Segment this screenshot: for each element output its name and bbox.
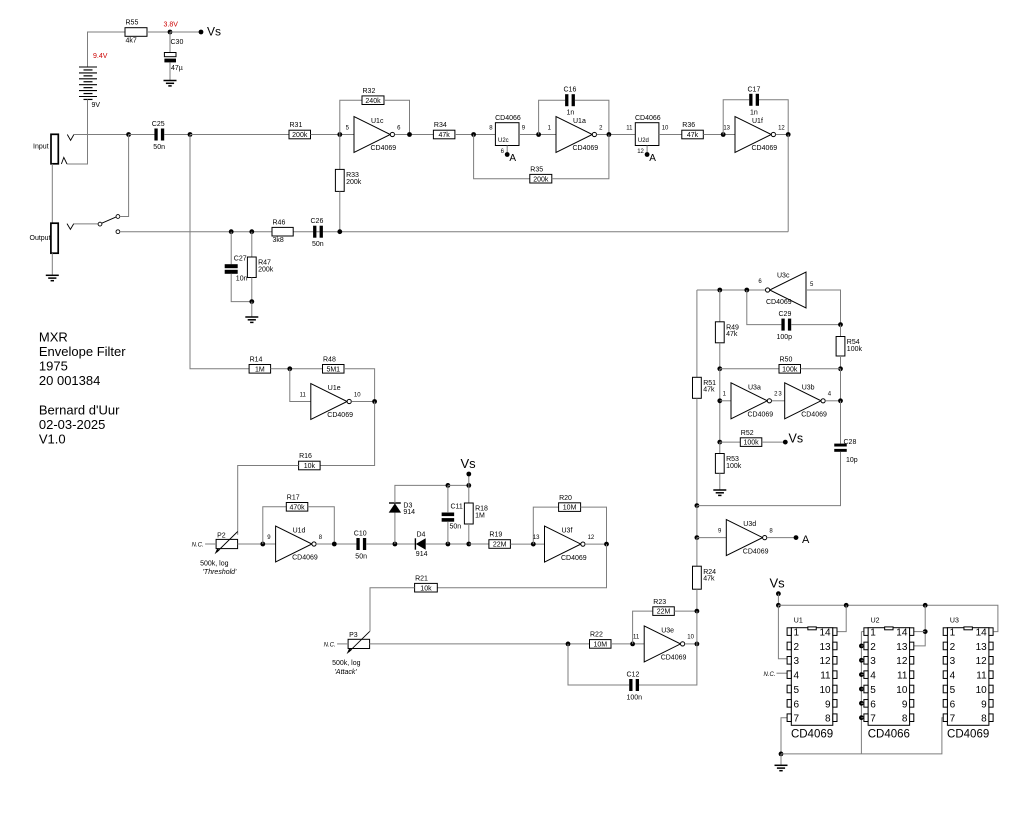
svg-text:9: 9 [902, 699, 908, 710]
svg-text:CD4066: CD4066 [868, 728, 910, 740]
inverter U1e [300, 384, 362, 420]
ground below rail [775, 765, 788, 770]
svg-text:12: 12 [778, 125, 785, 131]
node U2 pin2 junction [859, 644, 864, 649]
svg-text:22M: 22M [657, 609, 671, 616]
wire U2 pin7 stub [861, 717, 864, 719]
svg-text:A: A [649, 153, 656, 164]
node U1f input [721, 132, 726, 137]
node U2 pin14 tee [923, 629, 928, 634]
resistor R22 [590, 632, 612, 649]
wire D3 to Vs row [395, 485, 448, 503]
svg-text:R32: R32 [363, 88, 376, 95]
wire to ground [251, 302, 253, 317]
svg-text:7: 7 [794, 714, 800, 725]
svg-text:100k: 100k [782, 366, 798, 373]
svg-text:U3d: U3d [743, 521, 756, 528]
potentiometer P3 [324, 631, 370, 676]
diode D4 [415, 531, 427, 558]
svg-text:1M: 1M [475, 512, 485, 519]
wire up to Vs terminal [468, 476, 470, 486]
svg-text:11: 11 [897, 671, 908, 682]
svg-text:10n: 10n [236, 275, 248, 282]
resistor R19 [489, 532, 511, 549]
capacitor C11 [442, 504, 463, 531]
svg-text:R52: R52 [741, 430, 754, 437]
wire U2 pin3 stub [861, 659, 864, 661]
resistor R36 [682, 122, 704, 139]
svg-text:R14: R14 [250, 357, 263, 364]
wire R54 to R50 row [840, 356, 842, 369]
svg-text:6: 6 [794, 699, 800, 710]
svg-text:4: 4 [950, 671, 956, 682]
wire R48 to U1e output [344, 369, 375, 402]
svg-text:A: A [802, 534, 810, 546]
wire to R18 top [448, 484, 469, 486]
resistor R46 [272, 219, 293, 244]
battery BT1 9V [79, 53, 108, 109]
node C11 top [446, 483, 451, 488]
svg-text:9.4V: 9.4V [93, 53, 108, 60]
wire U3c input from right [806, 290, 841, 325]
node 3.8V junction [168, 30, 173, 35]
wire output sleeve to ground [51, 253, 53, 275]
svg-text:U3e: U3e [661, 627, 674, 634]
svg-text:10k: 10k [420, 585, 432, 592]
svg-text:8: 8 [981, 714, 987, 725]
wire jack sleeve link [51, 164, 53, 223]
svg-text:100p: 100p [777, 334, 793, 341]
node U2 pin4 junction [859, 672, 864, 677]
jack J1 Input [33, 134, 58, 164]
svg-text:10M: 10M [593, 642, 607, 649]
resistor R21 [415, 575, 438, 592]
svg-text:1975: 1975 [39, 358, 68, 373]
wire C11 vertical top [447, 485, 449, 512]
svg-text:14: 14 [819, 628, 831, 639]
resistor R23 [653, 599, 675, 616]
svg-text:U1: U1 [794, 618, 803, 625]
svg-text:3: 3 [950, 656, 956, 667]
node U3d input [695, 535, 700, 540]
wire down to C27 [230, 232, 232, 265]
svg-text:Vs: Vs [207, 25, 221, 39]
wire C28 return [697, 452, 841, 506]
resistor R17 [286, 495, 308, 512]
svg-text:C27: C27 [234, 255, 247, 262]
inverter U1d [267, 526, 322, 562]
wire switch upper throw to input node [120, 135, 129, 217]
wire R34 to U2c [455, 134, 496, 136]
inverter U1c [346, 117, 401, 153]
input jack ring contact [61, 157, 67, 164]
wire bus R51 to C28 row [696, 398, 698, 505]
wire oscillator bus upper [696, 290, 698, 377]
wire U3a to U3b [772, 400, 785, 402]
svg-text:CD4069: CD4069 [791, 728, 833, 740]
resistor R52 [740, 430, 762, 447]
svg-text:6: 6 [870, 699, 876, 710]
wire bus to U3d input [696, 506, 698, 538]
node ground rail [779, 752, 784, 757]
svg-text:14: 14 [976, 628, 988, 639]
svg-text:240k: 240k [365, 98, 381, 105]
svg-text:9: 9 [981, 699, 987, 710]
svg-text:10: 10 [687, 635, 694, 641]
node U1e output [372, 399, 377, 404]
wire R53 to ground [719, 473, 721, 489]
wire battery- to input jack ring [67, 100, 88, 165]
svg-text:12: 12 [637, 149, 644, 155]
svg-text:11: 11 [820, 671, 831, 682]
node U3f output [604, 542, 609, 547]
svg-text:U1a: U1a [573, 118, 586, 125]
svg-text:47k: 47k [703, 387, 715, 394]
svg-text:12: 12 [588, 535, 595, 541]
svg-text:U2c: U2c [498, 138, 509, 144]
inverter U3a [723, 383, 778, 419]
wire U2d to R36 [659, 134, 682, 136]
svg-text:5: 5 [870, 685, 876, 696]
node U1a output [607, 132, 612, 137]
wire R35 feedback right [552, 135, 609, 179]
wire C16 feedback right [575, 100, 609, 134]
wire Vs rail [778, 605, 998, 631]
IC U1 CD4069 [787, 618, 837, 741]
wire to Vs terminal [170, 31, 201, 33]
wire ground stub [780, 754, 782, 765]
resistor R47 [247, 257, 273, 278]
wire C12 branch [568, 644, 629, 685]
wire R18 vertical bottom [468, 524, 470, 544]
capacitor C17 [748, 86, 761, 116]
wire C11 vertical bottom [447, 522, 449, 544]
wire R49 vertical [719, 290, 721, 322]
wire right bus to C28 [840, 401, 842, 444]
wire U3b output [825, 400, 840, 402]
svg-text:11: 11 [976, 671, 987, 682]
wire R19 to U3f [510, 543, 544, 545]
IC U3 CD4069 [943, 618, 993, 741]
capacitor C30 [164, 39, 183, 72]
wire U1e output [351, 401, 374, 403]
resistor R34 [433, 122, 455, 139]
svg-text:Input: Input [33, 143, 49, 150]
svg-text:100n: 100n [627, 695, 643, 702]
svg-text:13: 13 [896, 642, 908, 653]
svg-text:P2: P2 [217, 532, 226, 539]
node C28 return junction [695, 503, 700, 508]
node ground junction [249, 299, 254, 304]
node R18 top [466, 483, 471, 488]
svg-text:R19: R19 [489, 532, 502, 539]
wire rail to U2 pin14/13 [914, 605, 925, 646]
switch lever [102, 217, 116, 223]
resistor R14 [249, 357, 271, 374]
svg-text:4: 4 [870, 671, 876, 682]
svg-text:200k: 200k [533, 176, 549, 183]
node R52 tap [717, 440, 722, 445]
svg-text:U1e: U1e [328, 385, 341, 392]
wire U1e input [290, 369, 311, 402]
svg-text:2: 2 [794, 642, 800, 653]
capacitor C10 [354, 531, 367, 561]
resistor R24 [693, 566, 717, 589]
wire R23 feedback right [674, 610, 697, 612]
wire R14 to node [271, 368, 323, 370]
svg-text:10k: 10k [304, 463, 316, 470]
svg-text:U1c: U1c [371, 118, 384, 125]
svg-text:50n: 50n [312, 241, 324, 248]
svg-text:11: 11 [626, 125, 633, 131]
net Vs terminal DIP [776, 591, 781, 596]
svg-text:9V: 9V [92, 102, 101, 109]
svg-text:100k: 100k [847, 346, 863, 353]
svg-text:U3f: U3f [562, 528, 573, 535]
wire R24 to R23 node [696, 589, 698, 611]
svg-text:7: 7 [950, 714, 956, 725]
svg-text:C17: C17 [748, 86, 761, 93]
node U1c output [407, 132, 412, 137]
svg-text:N.C.: N.C. [192, 543, 204, 549]
wire R17 feedback right [308, 507, 335, 544]
svg-text:R55: R55 [126, 20, 139, 27]
svg-text:R17: R17 [287, 495, 300, 502]
inverter U3e [633, 626, 695, 662]
svg-text:R34: R34 [434, 122, 447, 129]
wire C16 feedback left [539, 100, 566, 134]
svg-text:CD4069: CD4069 [292, 555, 318, 562]
svg-text:CD4066: CD4066 [635, 115, 661, 122]
svg-text:11: 11 [300, 392, 307, 398]
svg-text:N.C.: N.C. [324, 642, 336, 648]
wire R20 feedback left [533, 507, 558, 544]
svg-text:CD4066: CD4066 [495, 115, 521, 122]
wire U3a input stub [720, 400, 731, 402]
svg-text:U2: U2 [871, 618, 880, 625]
wire U3d input [697, 537, 726, 539]
wire R33 to feedback line [339, 191, 341, 231]
svg-text:R21: R21 [415, 575, 428, 582]
text block title [39, 329, 126, 446]
capacitor C27 [225, 255, 248, 282]
switch SW1 pole [98, 222, 102, 226]
resistor R18 [464, 503, 488, 524]
wire U3f output [585, 543, 606, 545]
svg-text:CD4069: CD4069 [947, 728, 989, 740]
svg-text:Vs: Vs [789, 432, 804, 446]
wire Vs to rail [777, 594, 779, 606]
node R50 left [717, 366, 722, 371]
net Vs terminal R52 [783, 440, 788, 445]
node R49 tap [717, 288, 722, 293]
node rail U2 tap [923, 603, 928, 608]
wiper arrow [349, 631, 370, 652]
svg-text:R23: R23 [653, 599, 666, 606]
node R34/R35 junction [471, 132, 476, 137]
svg-text:U1f: U1f [752, 118, 763, 125]
svg-text:200k: 200k [346, 179, 362, 186]
node C27 junction [229, 229, 234, 234]
wire bus to R24 [696, 538, 698, 567]
svg-text:Vs: Vs [770, 575, 786, 590]
node Vs rail left [776, 603, 781, 608]
node U3f input [531, 542, 536, 547]
capacitor C25 [152, 121, 165, 151]
svg-text:5: 5 [794, 685, 800, 696]
svg-text:R50: R50 [780, 357, 793, 364]
node C29 right [838, 322, 843, 327]
svg-text:1n: 1n [750, 109, 758, 116]
svg-text:R46: R46 [273, 219, 286, 226]
svg-text:02-03-2025: 02-03-2025 [39, 417, 106, 432]
svg-text:50n: 50n [355, 554, 367, 561]
jack J2 Output [30, 223, 59, 253]
svg-text:V1.0: V1.0 [39, 432, 66, 447]
svg-text:R48: R48 [323, 357, 336, 364]
wire R47 to ground node [251, 278, 253, 302]
wire C10 to D3 node [366, 543, 415, 545]
wire output tip to switch pole [74, 223, 98, 225]
svg-text:47k: 47k [439, 132, 451, 139]
wire D4 to C11 bottom [426, 543, 469, 545]
svg-text:13: 13 [723, 125, 730, 131]
wire left bus to U3a [719, 369, 721, 442]
capacitor C26 [311, 218, 324, 248]
output jack tip contact [67, 224, 74, 230]
wire ground rail [781, 718, 943, 754]
wire U1c input down to R33 [339, 135, 341, 170]
wire U2 pin2 stub [861, 645, 864, 647]
svg-text:914: 914 [416, 551, 428, 558]
wire input tip to node [74, 134, 129, 136]
wire R31 to U1c input [311, 134, 355, 136]
capacitor C12 [627, 672, 643, 702]
node U1e input [287, 366, 292, 371]
svg-text:U3a: U3a [748, 384, 761, 391]
svg-text:500k, log: 500k, log [200, 560, 229, 567]
pin 6 control wire [506, 146, 508, 154]
svg-text:1: 1 [794, 628, 800, 639]
node C12 tap [566, 642, 571, 647]
inverter U3c [758, 272, 814, 308]
capacitor C29 [777, 311, 793, 341]
wire U2 pin6 stub [861, 702, 864, 704]
wire U2c to U1a [519, 134, 556, 136]
svg-text:U1d: U1d [293, 528, 306, 535]
capacitor C28 [834, 439, 858, 464]
node U3a input [717, 398, 722, 403]
svg-text:CD4069: CD4069 [752, 145, 778, 152]
wire R50 row right [801, 368, 841, 370]
svg-text:CD4069: CD4069 [661, 655, 687, 662]
svg-text:MXR: MXR [39, 329, 68, 344]
wire U1a output [597, 134, 636, 136]
node rail U1 tap [844, 603, 849, 608]
ground below R47 [245, 317, 258, 322]
wire feedback line C26 row [120, 231, 788, 233]
svg-text:6: 6 [950, 699, 956, 710]
wire U2 ground bus [860, 632, 862, 754]
svg-text:U3: U3 [950, 618, 959, 625]
wire node down to R14 row [190, 135, 249, 369]
svg-text:20 001384: 20 001384 [39, 373, 100, 388]
resistor R48 [323, 357, 345, 374]
node U2 pin6 junction [859, 701, 864, 706]
resistor R49 [715, 322, 739, 343]
diode D3 [389, 503, 415, 517]
inverter U3b [785, 383, 832, 419]
svg-text:'Attack': 'Attack' [335, 669, 358, 676]
svg-text:R16: R16 [299, 453, 312, 460]
svg-text:50n: 50n [153, 144, 165, 151]
wire R17 feedback left [263, 507, 287, 544]
svg-text:5: 5 [950, 685, 956, 696]
wire to R53 [719, 442, 721, 453]
inverter U1f [723, 117, 785, 153]
switch throw upper [116, 215, 120, 219]
svg-text:A: A [509, 153, 516, 164]
svg-text:500k, log: 500k, log [332, 660, 361, 667]
node U2 pin3 junction [859, 658, 864, 663]
svg-text:10: 10 [896, 685, 908, 696]
net Vs terminal [199, 30, 204, 35]
wire R23 node to U3e output [696, 611, 698, 644]
wire R18 vertical top [468, 485, 470, 503]
svg-text:7: 7 [870, 714, 876, 725]
svg-text:R36: R36 [682, 122, 695, 129]
resistor R32 [362, 88, 384, 105]
node input junction [126, 132, 131, 137]
svg-text:8: 8 [902, 714, 908, 725]
capacitor C16 [564, 87, 577, 117]
wiper arrow [217, 532, 238, 553]
wire C25 to node [164, 134, 190, 136]
resistor R54 [836, 337, 862, 357]
pin 12 control wire [646, 146, 648, 154]
wire R52 row [720, 441, 741, 443]
wire U1d output [316, 543, 356, 545]
wire U1f output down to feedback line [787, 135, 789, 232]
svg-text:U3b: U3b [802, 384, 815, 391]
svg-text:3.8V: 3.8V [164, 22, 179, 29]
wire R23 feedback left [633, 611, 653, 644]
node U3e input [630, 642, 635, 647]
wire P3 to R22 [370, 643, 590, 645]
wire U2 pin1 stub [861, 631, 864, 633]
svg-text:C26: C26 [311, 218, 324, 225]
wire R32 feedback left [340, 100, 362, 134]
switch throw lower [116, 230, 120, 234]
svg-text:13: 13 [819, 642, 831, 653]
wire U1e output down to R16 [320, 402, 375, 466]
svg-text:CD4069: CD4069 [801, 412, 827, 419]
svg-text:13: 13 [976, 642, 988, 653]
resistor R50 [779, 357, 801, 374]
analog switch U2d [626, 115, 669, 164]
wire C30 to ground [169, 62, 171, 80]
svg-text:12: 12 [896, 656, 908, 667]
wire R32 feedback right [384, 100, 410, 134]
wire R35 feedback left [474, 135, 530, 179]
svg-text:1: 1 [950, 628, 956, 639]
wire R20 feedback right [581, 507, 607, 544]
svg-text:C28: C28 [844, 439, 857, 446]
wire C12 to output vertical [639, 644, 697, 685]
wire R52 to Vs [762, 441, 784, 443]
svg-text:470k: 470k [289, 504, 305, 511]
svg-text:10M: 10M [563, 505, 577, 512]
